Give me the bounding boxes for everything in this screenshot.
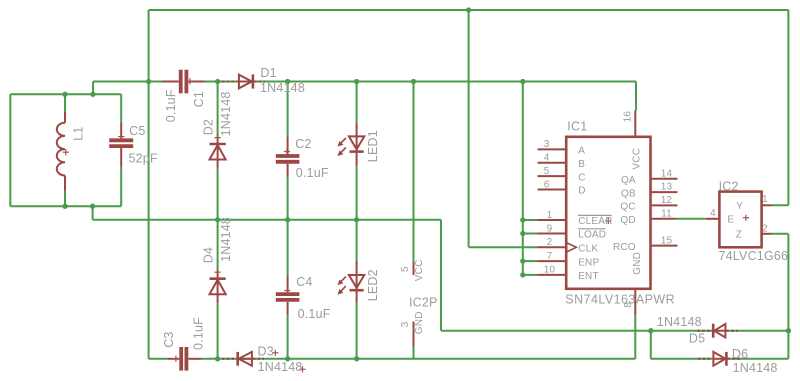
svg-text:Y: Y bbox=[736, 201, 743, 212]
svg-text:GND: GND bbox=[414, 311, 425, 334]
svg-text:6: 6 bbox=[544, 179, 550, 190]
svg-text:1N4148: 1N4148 bbox=[260, 81, 305, 95]
svg-text:LED2: LED2 bbox=[366, 269, 380, 301]
svg-text:SN74LV163APWR: SN74LV163APWR bbox=[565, 292, 675, 306]
svg-text:IC2: IC2 bbox=[719, 179, 739, 193]
svg-text:3: 3 bbox=[400, 321, 411, 327]
svg-text:A: A bbox=[578, 146, 585, 157]
svg-text:1N4148: 1N4148 bbox=[219, 217, 233, 262]
svg-text:GND: GND bbox=[632, 252, 643, 275]
svg-text:VCC: VCC bbox=[632, 148, 643, 170]
svg-text:D2: D2 bbox=[202, 119, 216, 135]
svg-text:C3: C3 bbox=[162, 331, 176, 347]
svg-text:B: B bbox=[578, 159, 585, 170]
svg-text:12: 12 bbox=[661, 195, 673, 206]
svg-text:D: D bbox=[578, 186, 585, 197]
svg-text:15: 15 bbox=[661, 235, 673, 246]
svg-text:8: 8 bbox=[623, 302, 634, 308]
svg-text:L1: L1 bbox=[71, 126, 85, 140]
svg-text:QD: QD bbox=[620, 215, 635, 226]
svg-text:D6: D6 bbox=[732, 347, 748, 361]
svg-text:4: 4 bbox=[710, 208, 716, 219]
svg-text:E: E bbox=[727, 215, 734, 226]
svg-text:IC2P: IC2P bbox=[409, 295, 438, 309]
svg-text:16: 16 bbox=[623, 111, 634, 123]
svg-text:3: 3 bbox=[544, 139, 550, 150]
svg-text:LED1: LED1 bbox=[366, 130, 380, 162]
svg-text:5: 5 bbox=[544, 166, 550, 177]
svg-text:C5: C5 bbox=[129, 124, 145, 138]
svg-text:1: 1 bbox=[547, 210, 553, 221]
svg-text:CLEAR: CLEAR bbox=[578, 216, 612, 227]
svg-text:1N4148: 1N4148 bbox=[733, 361, 778, 375]
svg-text:IC1: IC1 bbox=[567, 119, 587, 133]
svg-text:D5: D5 bbox=[689, 331, 705, 345]
svg-text:D3: D3 bbox=[258, 344, 274, 358]
svg-text:1N4148: 1N4148 bbox=[657, 315, 702, 329]
svg-text:2: 2 bbox=[762, 223, 768, 234]
svg-text:9: 9 bbox=[547, 223, 553, 234]
svg-text:0.1uF: 0.1uF bbox=[164, 89, 178, 122]
svg-text:14: 14 bbox=[661, 168, 673, 179]
svg-text:ENT: ENT bbox=[578, 271, 599, 282]
svg-text:0.1uF: 0.1uF bbox=[191, 317, 205, 350]
svg-text:VCC: VCC bbox=[414, 259, 425, 281]
svg-text:5: 5 bbox=[400, 266, 411, 272]
svg-text:CLK: CLK bbox=[578, 243, 598, 254]
svg-text:QB: QB bbox=[621, 188, 636, 199]
svg-text:11: 11 bbox=[661, 208, 672, 219]
svg-text:D1: D1 bbox=[260, 66, 276, 80]
svg-text:10: 10 bbox=[544, 265, 556, 276]
svg-text:1N4148: 1N4148 bbox=[258, 360, 303, 374]
svg-text:QC: QC bbox=[620, 202, 635, 213]
svg-text:0.1uF: 0.1uF bbox=[296, 166, 329, 180]
svg-text:1N4148: 1N4148 bbox=[219, 91, 233, 136]
svg-text:52pF: 52pF bbox=[129, 152, 158, 166]
svg-text:ENP: ENP bbox=[578, 257, 599, 268]
svg-text:Z: Z bbox=[736, 230, 742, 241]
svg-text:C: C bbox=[578, 172, 585, 183]
svg-text:C4: C4 bbox=[296, 275, 312, 289]
svg-text:C1: C1 bbox=[192, 91, 206, 107]
svg-text:C2: C2 bbox=[295, 137, 311, 151]
svg-text:13: 13 bbox=[661, 182, 673, 193]
svg-text:RCO: RCO bbox=[613, 242, 636, 253]
svg-text:LOAD: LOAD bbox=[578, 230, 606, 241]
svg-text:4: 4 bbox=[544, 153, 550, 164]
svg-text:QA: QA bbox=[621, 175, 636, 186]
svg-text:7: 7 bbox=[547, 251, 553, 262]
svg-text:0.1uF: 0.1uF bbox=[298, 307, 331, 321]
svg-text:1: 1 bbox=[762, 194, 768, 205]
svg-text:2: 2 bbox=[547, 237, 553, 248]
svg-text:D4: D4 bbox=[202, 247, 216, 263]
svg-text:74LVC1G66: 74LVC1G66 bbox=[719, 249, 789, 263]
